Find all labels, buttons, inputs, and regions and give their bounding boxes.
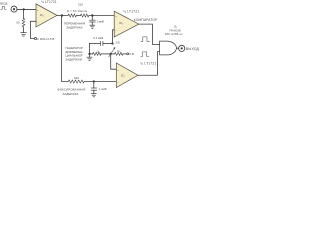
output connector J2 (179, 45, 185, 51)
svg-text:3 В: 3 В (115, 41, 119, 45)
pulse glyph (gate bottom input) (141, 52, 149, 57)
wire R50 to ground (23, 27, 25, 33)
svg-text:50: 50 (16, 20, 20, 24)
wire to ground (89, 54, 91, 57)
potentiometer wiper arrow (109, 48, 115, 57)
svg-text:5 В: 5 В (129, 52, 133, 56)
wire junction down to fixed delay R620 (62, 16, 69, 82)
ground (C1) (90, 25, 95, 28)
terminal to 2.5V reference (34, 37, 36, 39)
wire pot to 5V terminal (123, 53, 127, 55)
node A threshold node (111, 42, 113, 44)
svg-text:1 мкФ: 1 мкФ (96, 19, 104, 23)
svg-text:0.1 мкФ: 0.1 мкФ (93, 36, 103, 40)
op-amp IC1b comparator (1/4 LT1721) (114, 11, 139, 37)
resistor 50 (vertical) (22, 18, 25, 27)
resistor 620 (fixed delay) (68, 80, 84, 83)
resistor 510 (right half) (80, 14, 89, 17)
capacitor C3 1uF (fixed delay) (93, 82, 95, 88)
input connector J1 (11, 6, 17, 12)
AND gate G1 74HC08 (160, 41, 177, 55)
op-amp IC1c (1/4 LT1721) (116, 63, 138, 88)
svg-text:ЗАДЕРЖКИ: ЗАДЕРЖКИ (65, 57, 82, 61)
wire IC1b -in down to node A (113, 30, 115, 44)
ground (C3) (91, 94, 96, 97)
svg-text:ВЫХОД: ВЫХОД (186, 47, 200, 51)
node IC1a output junction (61, 14, 63, 16)
node pot left junction (88, 53, 90, 55)
wire IC1b output to gate (139, 24, 160, 44)
svg-text:300 пс/85 нс: 300 пс/85 нс (165, 32, 183, 36)
node input junction (23, 8, 25, 10)
svg-text:¼ LT1721: ¼ LT1721 (123, 10, 139, 14)
wire IC1a output (57, 14, 68, 16)
svg-text:ВХОД: ВХОД (0, 1, 7, 5)
wire wiper down to IC1c +in (111, 54, 117, 69)
svg-text:IC₁: IC₁ (40, 13, 44, 17)
wire gate output (176, 47, 178, 49)
node pot wiper junction (110, 53, 112, 55)
svg-text:¼ LT1721: ¼ LT1721 (41, 0, 56, 4)
pulse glyph (gate top input) (141, 37, 149, 41)
svg-text:ФИКСИРОВАННАЯ: ФИКСИРОВАННАЯ (57, 88, 85, 92)
svg-text:ЗАДЕРЖКА: ЗАДЕРЖКА (66, 25, 82, 29)
wire R510 to RC node (89, 15, 114, 17)
svg-text:КОМПАРАТОР: КОМПАРАТОР (134, 18, 158, 22)
wire junction down to R 50 (23, 9, 25, 18)
svg-text:510: 510 (78, 3, 83, 7)
resistor 1k (pot left half) (90, 53, 93, 55)
wire IC1a -in to reference (31, 21, 37, 38)
capacitor C1 1uF (91, 16, 93, 21)
wire between delay resistors (77, 15, 81, 17)
terminal 5V (127, 53, 129, 55)
ground (pot left) (87, 57, 92, 60)
ground (input divider) (21, 33, 27, 37)
svg-text:¼ LT1721: ¼ LT1721 (140, 62, 156, 66)
svg-text:К ИОН 2,5 В: К ИОН 2,5 В (37, 37, 54, 41)
wire R620 to IC1c -in (84, 81, 116, 83)
svg-text:620: 620 (74, 76, 79, 80)
wire input to IC1a +in (17, 8, 36, 10)
node fixed RC junction (93, 80, 95, 82)
input pulse waveform glyph (1, 6, 7, 9)
svg-text:IC₁: IC₁ (121, 73, 125, 77)
svg-text:1 мкФ: 1 мкФ (99, 87, 107, 91)
node top RC junction (91, 14, 93, 16)
svg-text:R = 50 Ом/см: R = 50 Ом/см (67, 9, 87, 13)
svg-text:1к: 1к (117, 49, 120, 53)
wire C2 left down to ground rail (89, 44, 91, 54)
svg-text:ЗАДЕРЖКА: ЗАДЕРЖКА (63, 92, 79, 96)
wire to wiper node (101, 53, 114, 55)
svg-text:IC₁: IC₁ (119, 21, 123, 25)
op-amp IC1a (1/4 LT1721) (36, 4, 57, 27)
resistor 510 (left half, delay line) (68, 14, 77, 17)
resistor 1k (pot right half) (115, 52, 124, 55)
wire IC1c output to gate (138, 52, 160, 76)
